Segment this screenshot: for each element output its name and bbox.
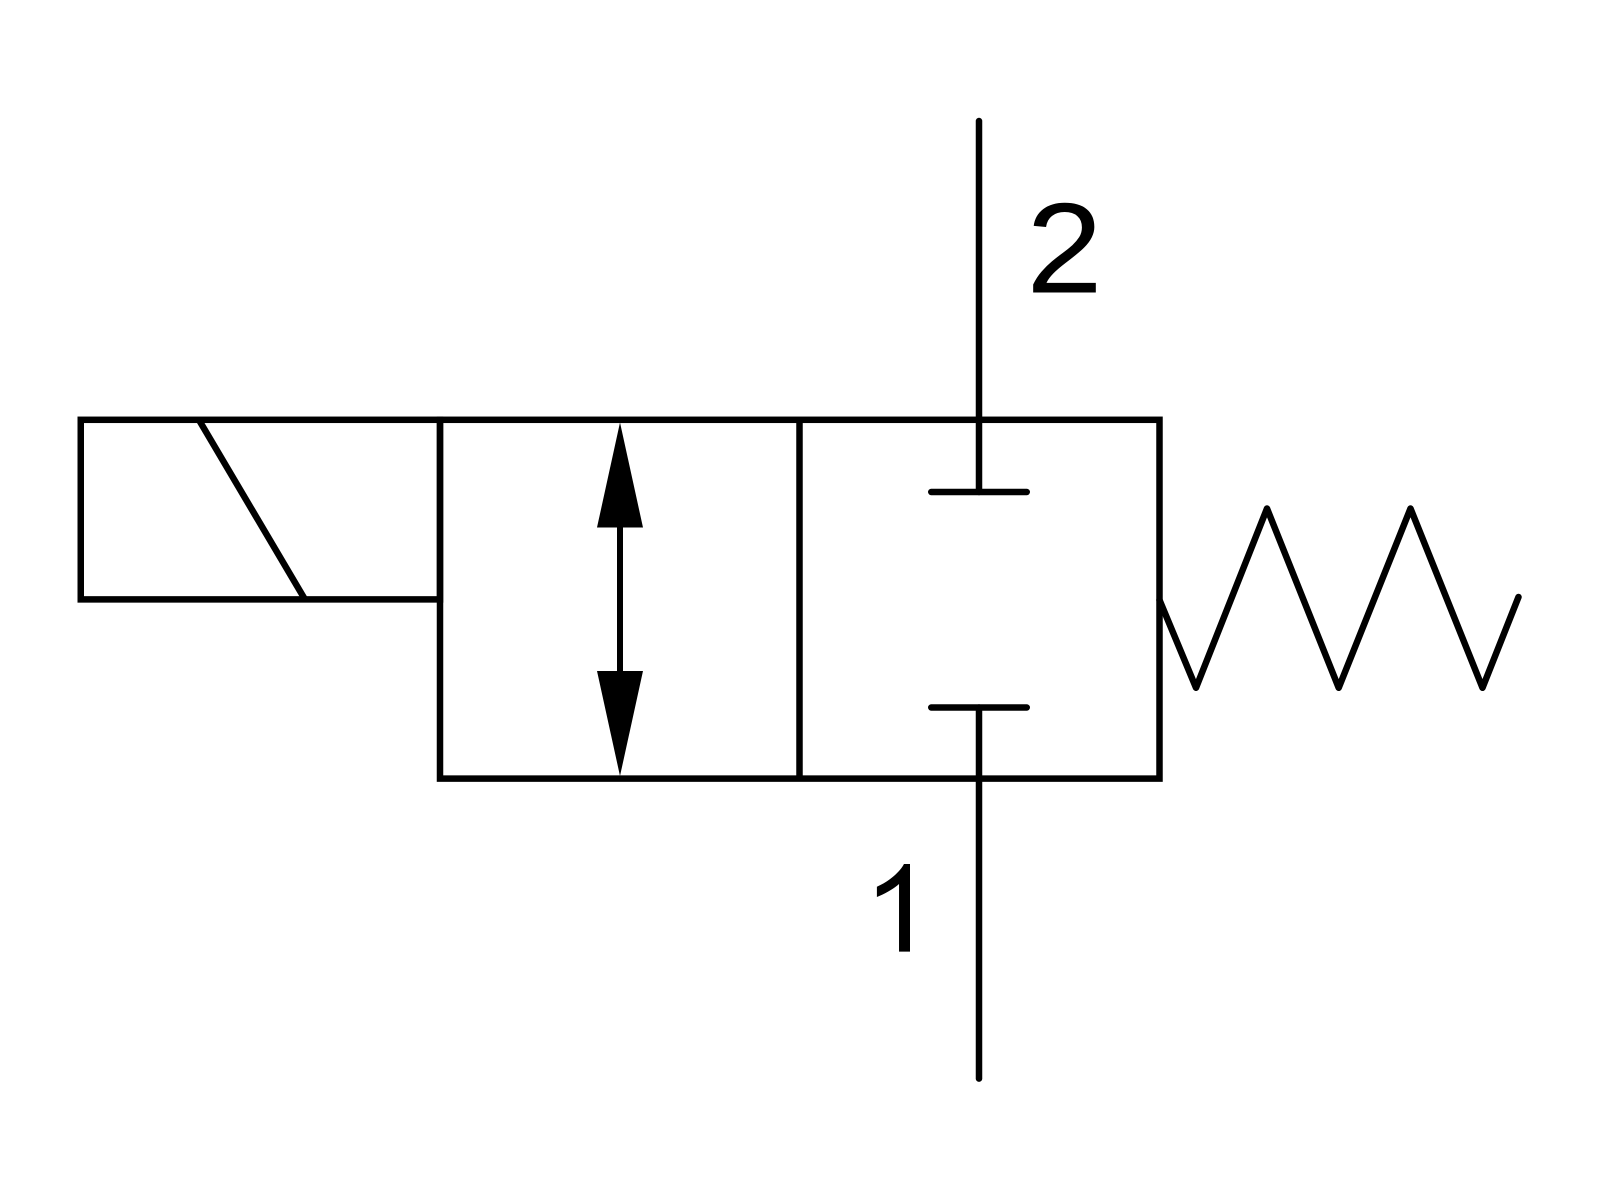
svg-text:2: 2 [1026,178,1102,321]
